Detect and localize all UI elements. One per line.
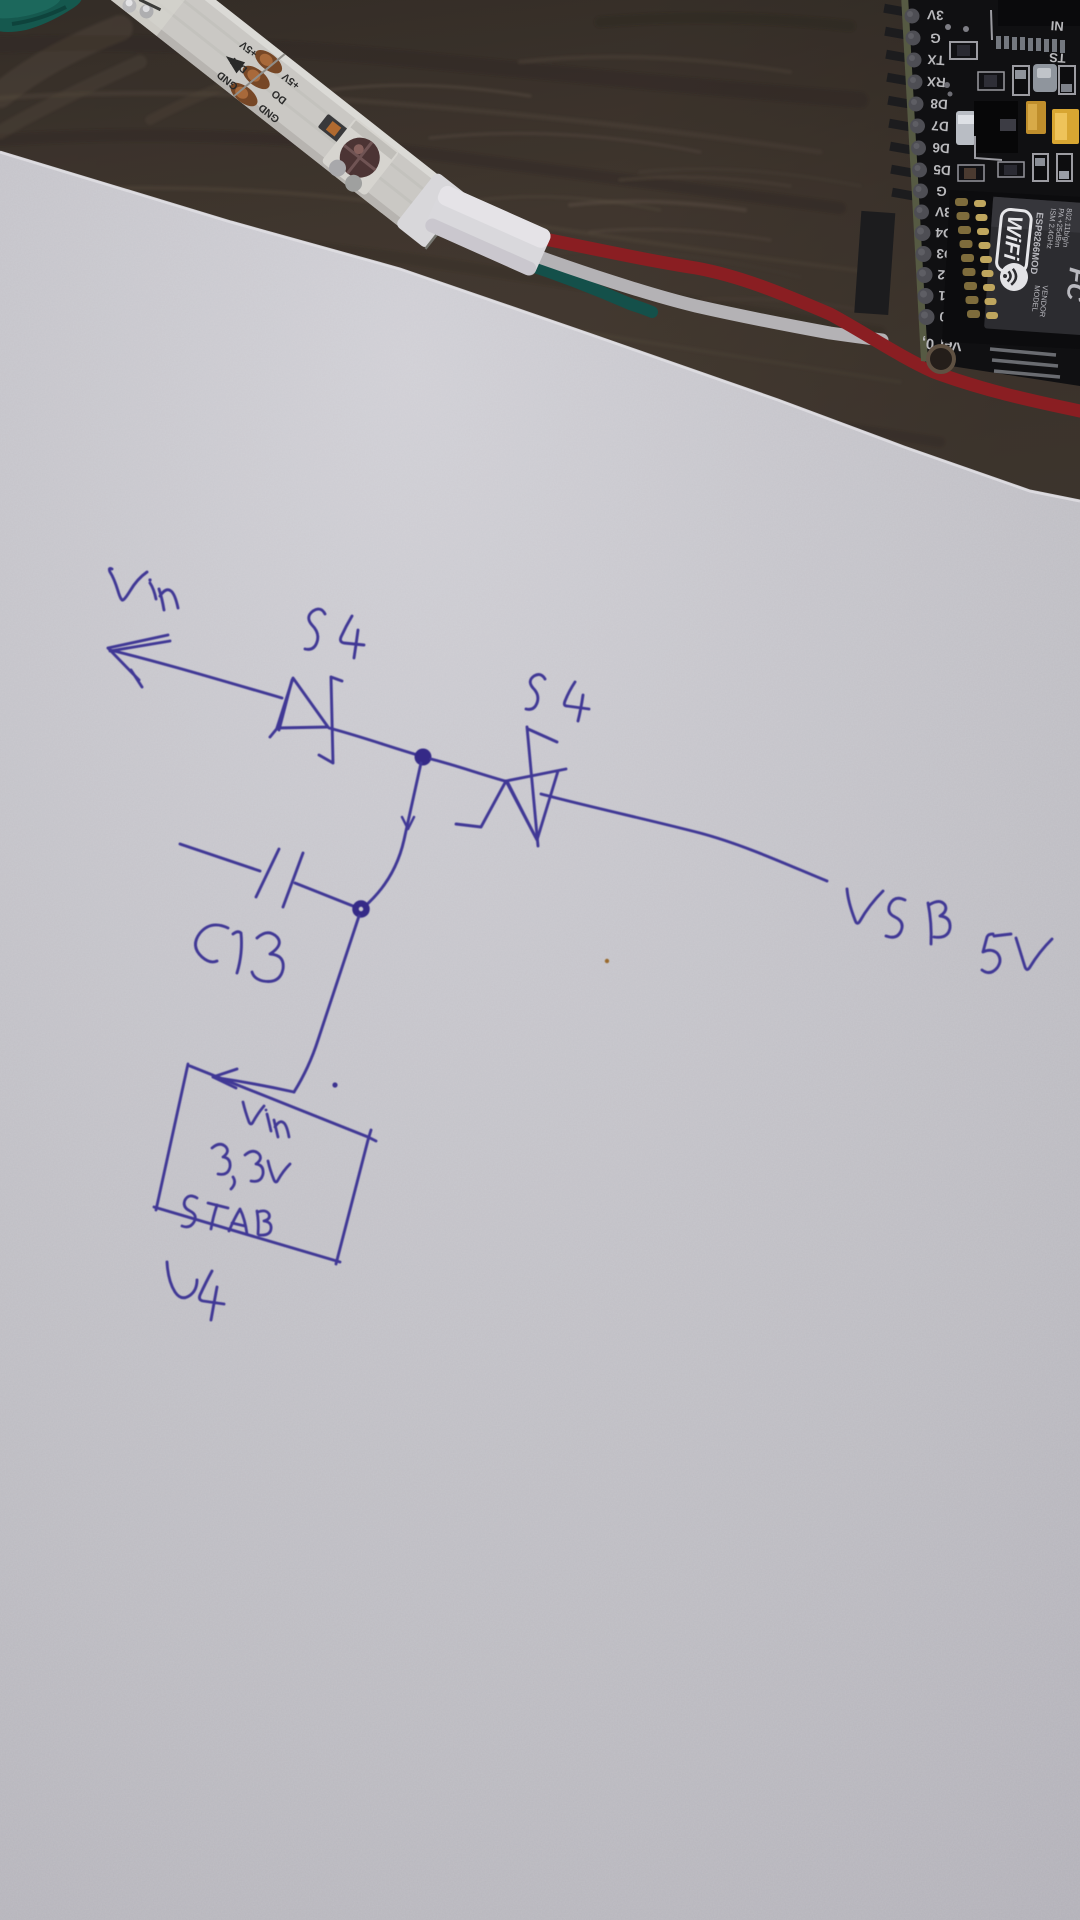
svg-text:TS: TS (1048, 50, 1066, 66)
svg-text:D5: D5 (932, 162, 951, 178)
hand-drawn schematic in blue ballpoint (108, 568, 1052, 1320)
net label VSB 5V (847, 889, 1052, 973)
wire capacitor junction down to U4 box (294, 916, 359, 1092)
svg-text:G: G (936, 183, 948, 199)
node label Vin (109, 568, 178, 610)
svg-text:RX: RX (926, 74, 946, 90)
pin label Vin (inside U4) (243, 1102, 289, 1137)
solder pads group (226, 39, 292, 110)
pin labels (upside down) (921, 7, 962, 354)
antenna meander bottom (990, 349, 1060, 377)
WiFi logo (996, 209, 1032, 274)
label S4 (left diode) (305, 609, 364, 658)
svg-text:D7: D7 (931, 118, 949, 134)
castellated solder joints (955, 198, 980, 318)
heat shrink sleeve at strip end (423, 183, 553, 277)
LED strip (photo, top-left) (61, 0, 469, 251)
wood table background (0, 0, 1080, 600)
svg-text:TX: TX (927, 52, 945, 68)
DIN arrow (222, 51, 246, 74)
svg-text:D8: D8 (929, 96, 948, 112)
capacitor C13 (180, 844, 353, 907)
label S4 (right diode) (526, 675, 589, 721)
op-amp U4 regulator box (154, 1064, 376, 1264)
strip text upside down (214, 37, 306, 125)
wire node to diode S4 right (431, 759, 505, 781)
mounting hole (928, 346, 954, 372)
refdes label U4 (167, 1262, 224, 1320)
wire diode S4 right to VSB 5V (541, 794, 827, 881)
LED 5050 package (321, 118, 400, 197)
solder joints at strip top (62, 0, 196, 36)
small debris speck (605, 959, 609, 963)
wire arrow into U4 Vin pin (213, 1069, 294, 1092)
small capacitor beside LED (318, 114, 350, 144)
wire node down to capacitor junction (364, 763, 421, 907)
diode S4 (right) (456, 727, 566, 846)
label C13 (195, 925, 283, 982)
ESP-12 module with shield (942, 190, 1080, 377)
through-hole pads column (905, 9, 935, 326)
board body (901, 0, 1080, 386)
SMD components field (944, 0, 1080, 181)
wire diode S4 left to node (329, 728, 421, 756)
NodeMCU ESP8266 board (photo, top-right) (854, 0, 1080, 386)
value label 3,3V (inside U4) (212, 1144, 290, 1189)
text label STAB (inside U4) (182, 1196, 271, 1235)
header pins sticking left (854, 4, 918, 315)
junction node at capacitor (356, 904, 367, 915)
diode S4 (left) (270, 677, 342, 763)
svg-text:NI: NI (1050, 18, 1064, 34)
wire Vin with arrowhead (108, 635, 282, 698)
shield texts (1027, 208, 1080, 318)
svg-text:D6: D6 (931, 140, 950, 156)
hookup wires from strip (520, 234, 1080, 411)
junction node (solder dot) (415, 749, 432, 766)
green clip object top-left (0, 0, 82, 32)
svg-text:WiFi: WiFi (999, 215, 1027, 262)
svg-text:3V: 3V (927, 7, 945, 23)
svg-text:G: G (930, 30, 942, 46)
stray pen dot on paper (332, 1082, 337, 1087)
partial silk text right edge (1048, 18, 1066, 66)
